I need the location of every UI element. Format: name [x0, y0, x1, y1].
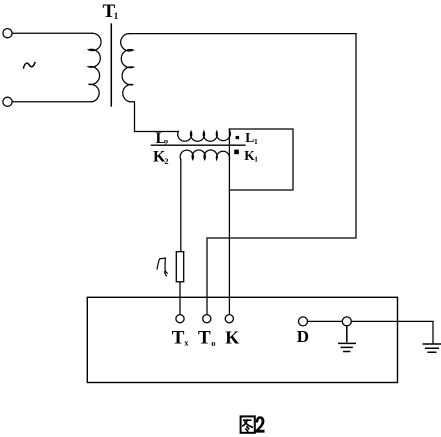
wire (rectangle loop from L1 side): [229, 129, 293, 190]
polarity dot K1: [234, 150, 239, 155]
svg-text:o: o: [211, 338, 215, 348]
wire (AC bottom terminal to T1 primary): [12, 101, 92, 103]
terminal K: [225, 315, 233, 323]
AC source terminal (bottom): [3, 97, 12, 106]
wire (K1 vertical down to terminal K): [228, 129, 230, 315]
transformer T1 primary winding: [89, 33, 102, 102]
svg-text:1: 1: [254, 137, 258, 146]
terminal D: [299, 317, 308, 326]
svg-text:x: x: [184, 338, 189, 348]
fuse F: [176, 252, 183, 282]
transformer T1 secondary winding: [121, 34, 134, 102]
wire (right vertical down, to To horizontal): [207, 34, 356, 315]
wire (fuse to terminal Tx): [179, 282, 181, 315]
svg-text:T: T: [172, 327, 185, 348]
wire (ground terminal to box-right earth): [351, 321, 433, 342]
svg-text:2: 2: [165, 157, 169, 166]
ground symbol (right of box): [423, 344, 441, 352]
svg-text:2: 2: [164, 138, 168, 147]
svg-text:K: K: [225, 327, 239, 347]
current transformer core: [152, 144, 245, 146]
wire (T1 secondary top to right vertical): [130, 33, 356, 35]
current transformer primary winding L2-L1: [178, 130, 231, 141]
wire (D to ground terminal): [308, 320, 343, 322]
svg-text:D: D: [297, 327, 309, 346]
AC source terminal (top): [3, 29, 12, 38]
ground terminal circle: [342, 317, 351, 326]
wire (K2 down to fuse): [180, 160, 182, 252]
test box: [87, 297, 397, 382]
terminal Tx: [176, 315, 184, 323]
current transformer secondary winding K2-K1: [180, 150, 229, 159]
discharge gap symbol: [157, 258, 167, 276]
wire (AC top terminal to T1 primary): [12, 32, 92, 34]
transformer T1 core: [110, 24, 112, 106]
terminal To: [203, 315, 211, 323]
polarity dot L1: [236, 136, 240, 139]
caption 图2: [241, 416, 255, 432]
svg-text:1: 1: [114, 11, 119, 21]
AC source symbol ~: [24, 63, 35, 68]
svg-text:1: 1: [254, 155, 258, 164]
wire (T1 secondary bottom to CT primary L2): [130, 102, 179, 132]
ground symbol (inside box): [339, 326, 355, 352]
svg-text:L: L: [245, 130, 254, 145]
svg-text:T: T: [198, 327, 211, 348]
